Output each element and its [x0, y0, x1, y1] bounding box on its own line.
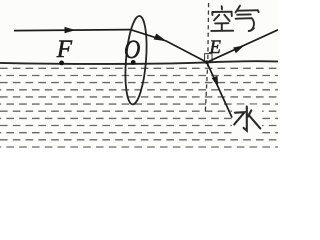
- reflected ray arrowhead: [233, 45, 244, 53]
- water hatching: [0, 68, 278, 147]
- incident ray arrowhead: [65, 27, 76, 33]
- svg-text:O: O: [124, 36, 141, 65]
- node E junction knot: [205, 60, 209, 64]
- focal point dot F: [59, 61, 64, 66]
- normal dashed line: [205, 3, 208, 112]
- converging ray arrowhead: [154, 33, 168, 41]
- water surface line: [0, 61, 278, 64]
- reflected ray: [207, 30, 278, 63]
- refracted ray arrowhead: [211, 76, 219, 88]
- lens centre dot O: [131, 60, 136, 65]
- svg-text:E: E: [208, 37, 221, 58]
- right-angle mark at E: [205, 54, 212, 62]
- svg-text:F: F: [56, 36, 73, 63]
- lens ellipse: [123, 15, 150, 105]
- refracted ray: [207, 62, 232, 117]
- label 空 (air char 1), drawn strokes: [211, 6, 233, 31]
- label 气 (air char 2), drawn strokes: [236, 6, 259, 31]
- converging ray (lens to E): [130, 30, 207, 63]
- white clearing behind label 水: [232, 105, 262, 134]
- label 水 (water), drawn strokes: [234, 107, 260, 131]
- incident ray: [14, 30, 130, 31]
